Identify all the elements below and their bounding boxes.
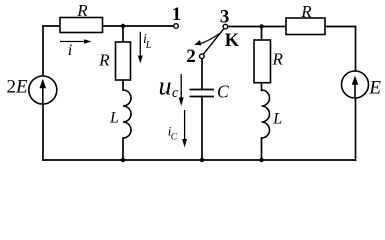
wire between R3 and L2 (261, 83, 263, 91)
svg-text:R: R (300, 2, 312, 21)
wire bottom rail (43, 159, 356, 161)
svg-text:2: 2 (186, 46, 196, 67)
switch K motion arrow (194, 34, 219, 46)
wire between R2 and L1 (122, 80, 124, 90)
wire left rail upper (42, 26, 44, 77)
wire below capacitor C to bottom rail (201, 97, 203, 161)
capacitor C (190, 82, 229, 102)
node 3 terminal (220, 6, 230, 29)
node 1 terminal (172, 4, 182, 28)
svg-text:C: C (217, 82, 229, 102)
resistor R2 (left branch vertical) (98, 42, 130, 80)
junction dot bottom rail at right branch (259, 158, 263, 162)
svg-text:L: L (109, 109, 119, 126)
resistor R3 (right branch vertical) (254, 40, 284, 83)
svg-text:c: c (172, 85, 179, 101)
svg-text:E: E (368, 77, 381, 98)
svg-text:L: L (145, 40, 152, 51)
wire below L1 to bottom rail (122, 138, 124, 160)
wire below L2 to bottom rail (261, 138, 263, 160)
wire right rail upper (355, 27, 357, 72)
svg-text:C: C (171, 133, 178, 143)
current arrow iL (138, 32, 152, 64)
resistor R4 (top right) (286, 2, 325, 35)
voltage arrow uC (159, 71, 184, 106)
switch K blade from node 2 to node 3 (203, 29, 240, 55)
svg-text:u: u (159, 71, 172, 100)
wire node 3 to right junction and on to R4 (228, 26, 286, 28)
wire from R4 to right rail (325, 26, 356, 28)
junction dot right of node 3 (259, 24, 263, 28)
svg-text:R: R (98, 51, 110, 70)
wire left rail lower (42, 104, 44, 160)
svg-text:L: L (272, 111, 282, 128)
svg-text:2E: 2E (7, 77, 29, 98)
resistor R1 (top left) (60, 1, 103, 33)
wire top-left horizontal from left rail to R1 (43, 25, 60, 27)
inductor L1 (left branch) (109, 90, 131, 138)
svg-text:i: i (68, 42, 72, 59)
current arrow iC (168, 110, 187, 148)
svg-text:1: 1 (172, 4, 182, 25)
junction dot bottom rail at capacitor branch (200, 158, 204, 162)
junction dot between R1 and node 1 (121, 24, 125, 28)
svg-text:3: 3 (220, 6, 230, 27)
source E (right, circle with up arrow) (342, 71, 382, 98)
inductor L2 (right branch) (262, 90, 283, 138)
current arrow i under R1 (60, 39, 92, 59)
junction dot bottom rail at left branch (121, 158, 125, 162)
wire branch down from top junction to R2 (122, 26, 124, 42)
source 2E (left, circle with up arrow) (7, 76, 57, 104)
wire right junction down to R3 (261, 27, 263, 41)
wire from R1 to node 1 (103, 25, 174, 27)
svg-text:K: K (225, 31, 240, 51)
svg-text:R: R (272, 49, 284, 68)
svg-text:R: R (76, 1, 88, 20)
node 2 terminal (186, 46, 204, 67)
wire right rail lower (355, 98, 357, 160)
wire node 2 down to capacitor C (201, 59, 203, 90)
